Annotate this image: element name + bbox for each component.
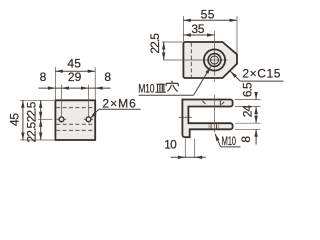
countersink mid circle <box>208 54 221 67</box>
M10 tapped hole hidden right <box>216 124 218 129</box>
centerline horizontal through hole <box>163 59 228 61</box>
side view body <box>182 100 232 138</box>
extension line arm top <box>235 99 261 101</box>
extension line left edge <box>54 67 56 99</box>
hidden line mid <box>56 123 94 125</box>
extension line block bottom-left <box>20 139 54 141</box>
centerline of M10 hole (projection) <box>214 95 216 132</box>
leader M10 <box>221 146 241 148</box>
dim 8/29/8 line <box>39 87 111 89</box>
M10 tapped hole hidden left <box>210 124 212 129</box>
dim 24 line <box>255 107 257 124</box>
block body <box>55 100 95 140</box>
svg-text:55: 55 <box>201 7 215 21</box>
top view body <box>183 42 237 78</box>
svg-text:6.5: 6.5 <box>240 82 254 97</box>
svg-text:2×C15: 2×C15 <box>242 66 281 80</box>
extension line hole level <box>38 118 52 120</box>
extension line 10 left <box>184 139 186 158</box>
dim 22.5/22.5 line <box>40 100 42 140</box>
hole inner circle <box>210 56 218 64</box>
extension line right edge <box>94 67 96 99</box>
svg-text:2×M6: 2×M6 <box>102 97 136 111</box>
svg-text:10: 10 <box>164 137 177 151</box>
svg-text:22.5: 22.5 <box>148 33 162 54</box>
dim 45 top line <box>55 70 95 72</box>
leader 2xC15 <box>240 80 283 82</box>
svg-text:M10: M10 <box>222 136 237 149</box>
svg-text:45: 45 <box>8 113 22 126</box>
extension line lower arm top <box>235 122 261 124</box>
svg-text:8: 8 <box>239 136 253 143</box>
extension line 10 right <box>194 139 196 158</box>
leader 2xM6 <box>99 108 141 110</box>
centerline vertical through hole <box>214 31 216 76</box>
svg-text:22.5: 22.5 <box>25 101 39 122</box>
leader M10 sara-ana <box>139 94 194 96</box>
svg-text:24: 24 <box>241 105 255 118</box>
dim 22.5 line (top view) <box>163 42 165 60</box>
dim 10 line <box>171 156 206 158</box>
countersink outer circle <box>204 49 225 70</box>
M10 drill hidden right <box>218 124 220 129</box>
dim 8 line lower stub <box>255 129 257 144</box>
dim 55 line <box>183 19 237 21</box>
kanji ana (hole) <box>166 81 178 92</box>
dim 45 left line <box>22 100 24 140</box>
dim 35 line <box>183 34 214 36</box>
hidden line top <box>56 107 94 109</box>
hole M6 left <box>59 117 64 122</box>
extension line block top-left <box>20 99 54 101</box>
M6 centerline on spine seg2 <box>183 116 188 118</box>
hole hidden line (top arm) <box>219 101 221 106</box>
svg-text:29: 29 <box>68 70 82 84</box>
extension line arm underside <box>235 106 261 108</box>
dim 6.5 line <box>255 94 257 100</box>
hole centerline left <box>61 85 63 123</box>
hole M6 right <box>86 117 91 122</box>
svg-text:8: 8 <box>40 70 47 84</box>
M6 centerline on spine seg1 <box>179 116 182 118</box>
hole centerline h right <box>84 118 93 120</box>
svg-text:M10: M10 <box>138 83 155 96</box>
M10 drill hidden left <box>208 124 210 129</box>
countersink hidden left slant <box>202 101 205 104</box>
hole centerline h left <box>57 118 66 120</box>
extension line 55 right <box>236 16 238 54</box>
svg-text:35: 35 <box>191 22 204 36</box>
extension line lower arm bottom <box>235 128 261 130</box>
hole centerline right <box>88 85 90 123</box>
svg-text:45: 45 <box>67 56 81 70</box>
svg-text:8: 8 <box>104 70 111 84</box>
hidden line low <box>56 129 94 131</box>
extension line 55 left <box>182 16 184 41</box>
hidden slot wall line <box>190 43 192 77</box>
extension line 22.5 top <box>162 41 183 43</box>
countersink hidden right slant <box>222 102 225 105</box>
kanji sara (dish) <box>155 84 165 92</box>
svg-text:22.5: 22.5 <box>25 122 39 143</box>
